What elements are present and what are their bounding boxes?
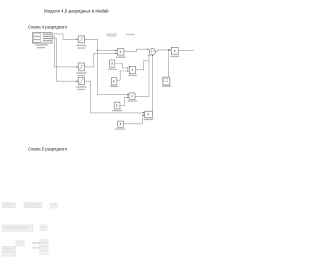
block B2 constant	[110, 60, 115, 68]
band row 1	[2, 203, 16, 208]
block B4 constant	[111, 78, 117, 86]
block B5 (sum3)	[129, 93, 135, 100]
block DTC1 (product)	[117, 49, 124, 56]
SRC label	[35, 44, 48, 48]
floating label 2	[126, 34, 135, 35]
block R1 (convert)	[78, 36, 85, 43]
block OB (convert out)	[171, 47, 178, 54]
junction dot	[97, 50, 99, 52]
svg-text:Схема 5 разрядного: Схема 5 разрядного	[28, 147, 68, 152]
B4 label	[110, 86, 119, 87]
wire B4 to B3 in2	[117, 71, 129, 80]
block R2 (convert)	[78, 63, 85, 71]
floating label 1	[106, 34, 117, 37]
input arrowheads	[76, 39, 171, 117]
B5 label	[128, 100, 138, 101]
wire B8 to FB in2	[124, 115, 145, 124]
wire SRC port3 down to R3	[52, 38, 76, 81]
B8 label	[115, 128, 125, 129]
R2 label	[76, 72, 86, 76]
R1 label	[76, 45, 86, 49]
wire sum out to OB	[156, 50, 171, 51]
block B3 (sum2)	[129, 66, 136, 74]
svg-text:Модели 4,5-разрядных в Matlab: Модели 4,5-разрядных в Matlab	[44, 8, 109, 13]
block R3 (convert)	[78, 78, 85, 85]
wire R3 out long to FB in1	[85, 81, 145, 113]
block FB (display2)	[145, 111, 153, 118]
wire R1 out trunk down to B5 in1	[85, 39, 129, 94]
sum circle	[149, 49, 155, 55]
junction dot	[168, 49, 170, 51]
FB label	[144, 119, 154, 120]
display D1	[163, 77, 170, 85]
DTC1 label	[116, 57, 126, 58]
bottom cluster	[2, 246, 16, 256]
B6 label	[112, 110, 123, 111]
source block SRC (signal builder)	[32, 33, 52, 44]
wire OB out	[178, 50, 193, 52]
OB label	[171, 56, 180, 57]
B3 label	[128, 75, 137, 76]
wire DTC1 out to sum	[124, 49, 149, 51]
wire junction down to D1	[167, 50, 169, 77]
B2 label	[108, 69, 117, 70]
block B6 constant	[114, 102, 120, 109]
wire B2 to B3 in1	[115, 64, 129, 69]
wire SRC port2 down to R2	[52, 36, 76, 67]
wire sum down to FB (Vb)	[151, 55, 153, 111]
wire SRC port1 to R1	[52, 34, 76, 39]
wire B6 to B5 in2	[120, 97, 129, 105]
svg-text:Схема 4 разрядного: Схема 4 разрядного	[28, 24, 68, 29]
wire B5 out up to sum (Va)	[135, 55, 149, 96]
block B8 constant	[118, 121, 124, 127]
wire B3 out up to sum	[136, 61, 150, 70]
band row 2	[2, 225, 33, 231]
D1 label	[162, 86, 171, 87]
R3 label	[76, 86, 86, 90]
wire R2 out up to DTC1 in2	[85, 53, 117, 67]
wire branch to DTC1 in1	[98, 49, 117, 51]
